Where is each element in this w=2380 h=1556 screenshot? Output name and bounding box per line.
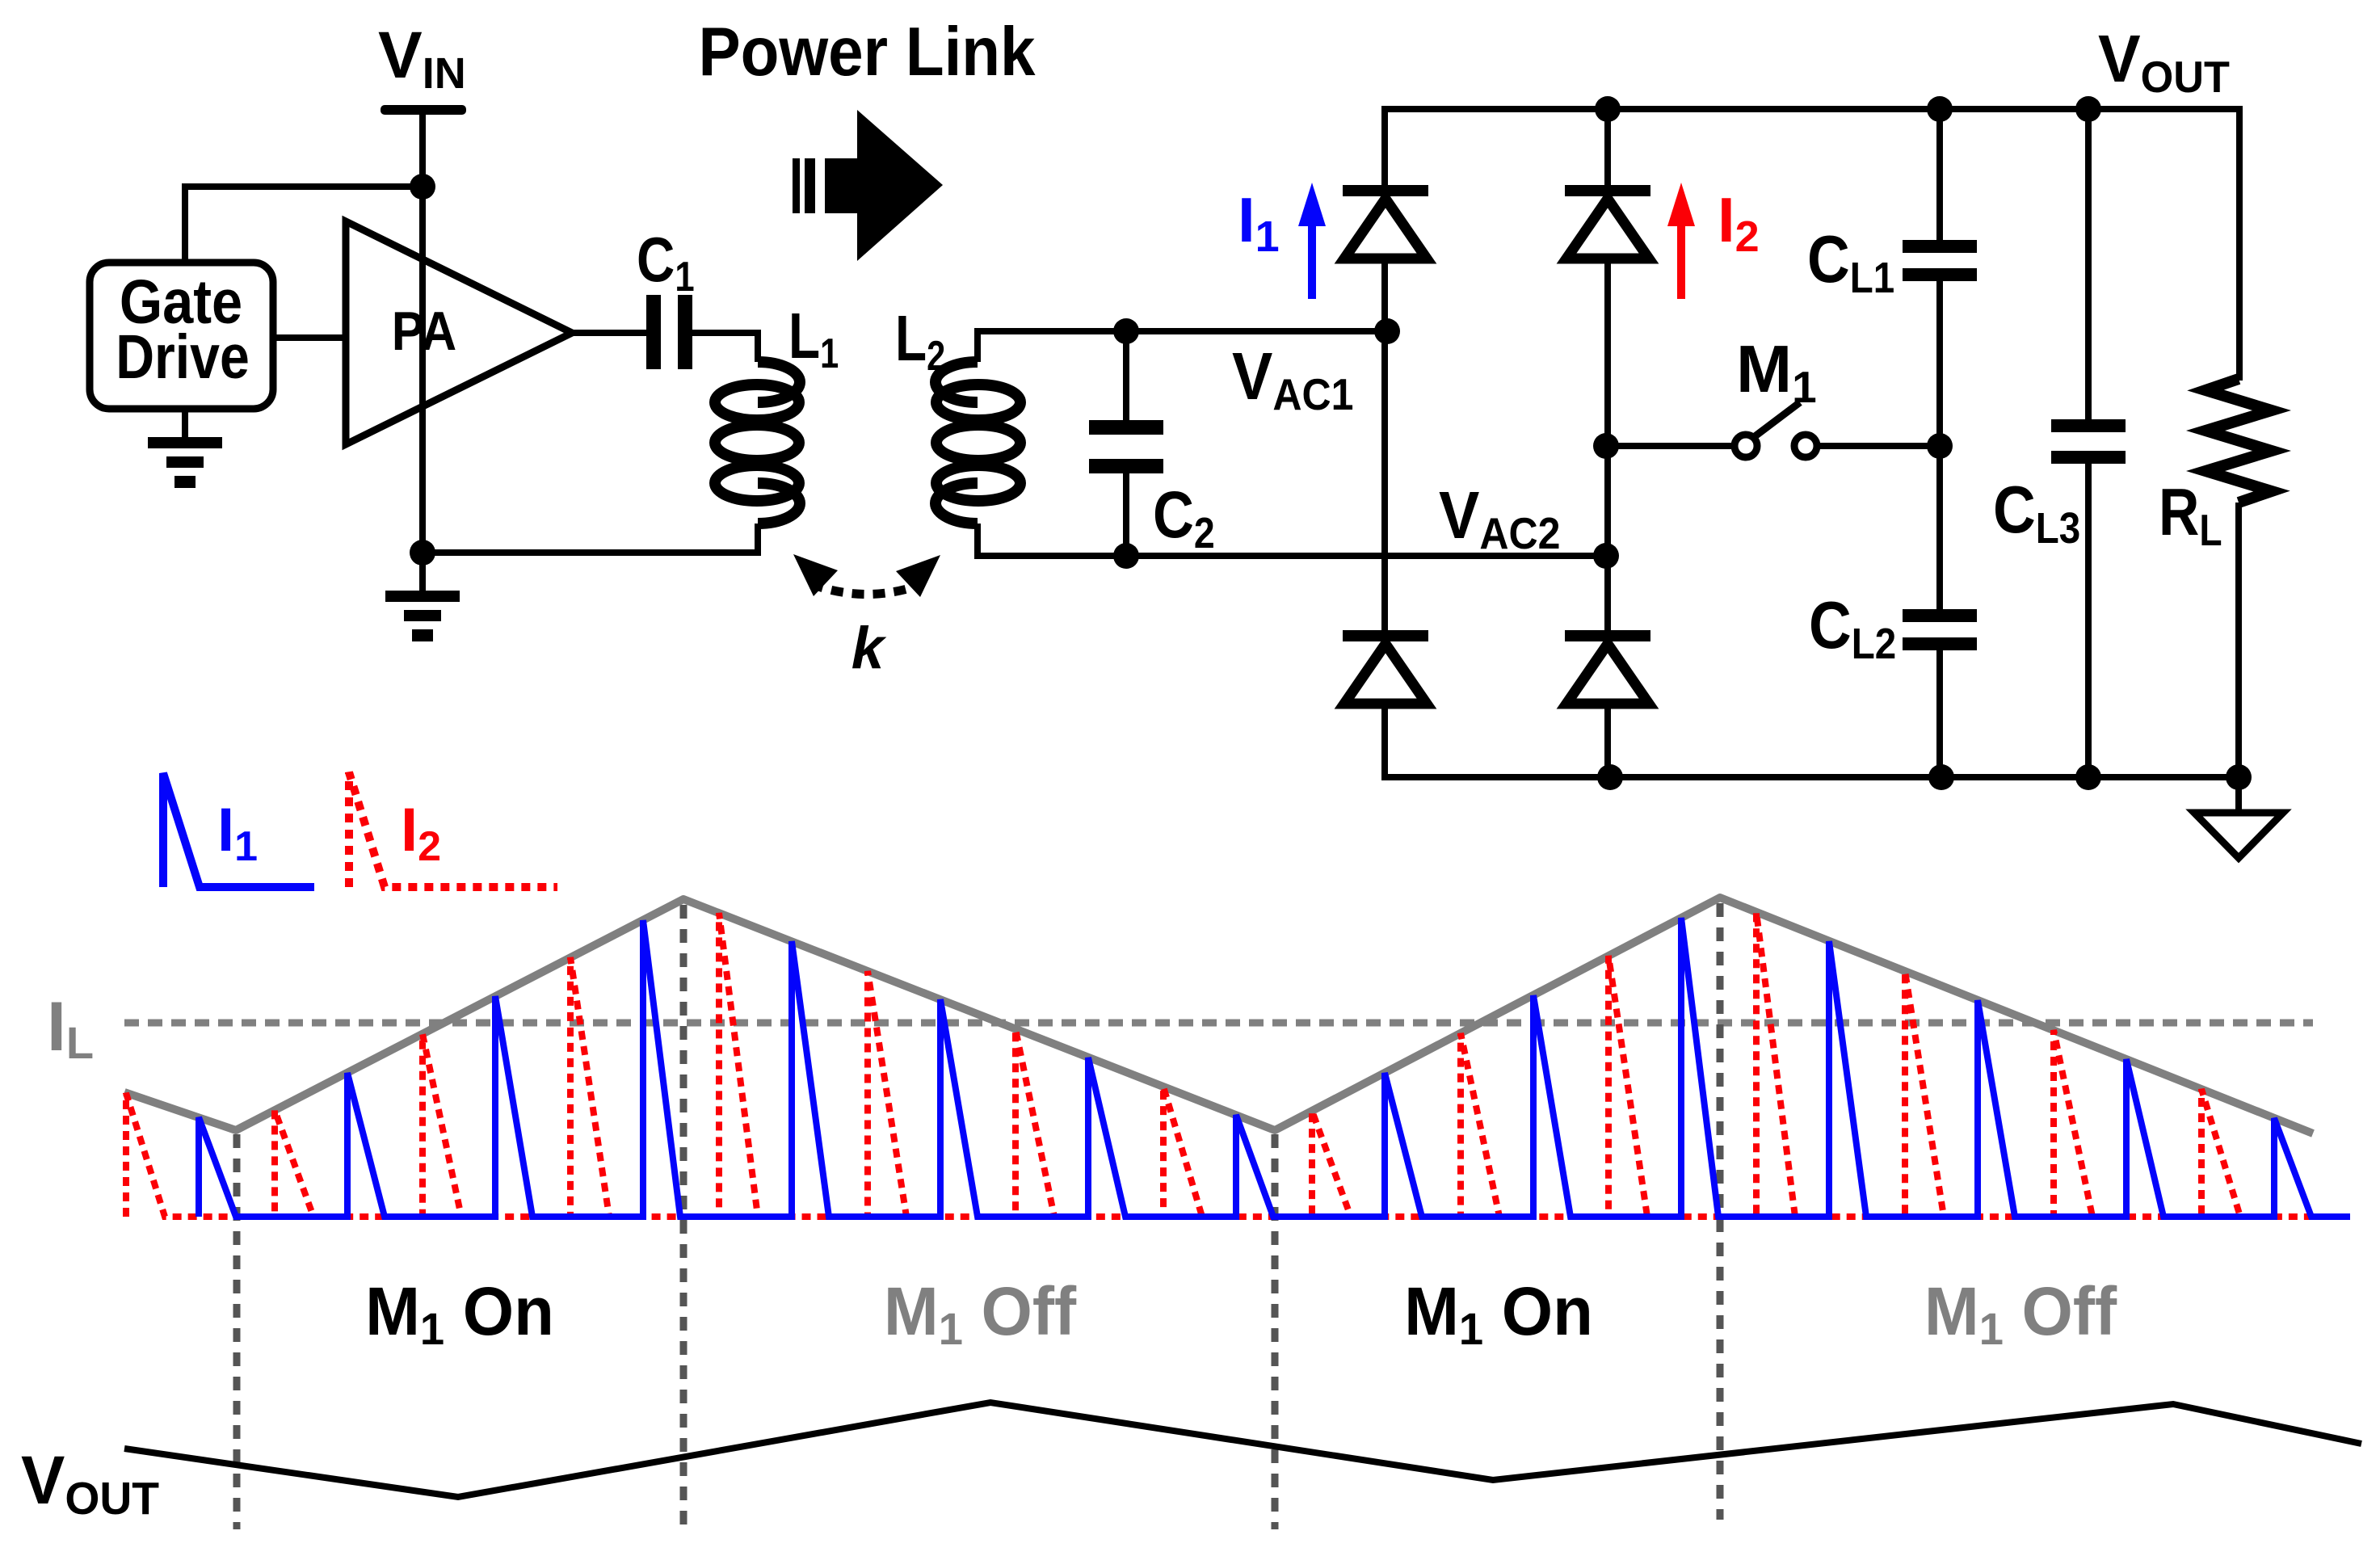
diode D3	[1343, 630, 1428, 641]
junction node	[410, 174, 435, 200]
wire L2 top to VAC1	[978, 331, 1387, 362]
current arrow I2	[1677, 220, 1685, 299]
M1 Off label 2	[1924, 1273, 2117, 1354]
capacitor C1	[646, 295, 661, 369]
Power Link label	[698, 14, 1036, 90]
bottom rail	[1385, 704, 2239, 777]
diode branch D1/D3 vertical	[1381, 259, 1388, 632]
M1 On label 2	[1404, 1273, 1593, 1354]
diode branch D2/D4 vertical	[1604, 109, 1611, 187]
dashed vertical markers	[233, 1134, 241, 1529]
svg-text:M1 Off: M1 Off	[884, 1273, 1077, 1354]
legend I1 spike	[163, 773, 314, 887]
VAC1 label	[1232, 339, 1353, 420]
junction node	[2075, 764, 2101, 790]
resistor RL	[2205, 379, 2272, 503]
wire VIN vertical	[419, 115, 426, 553]
M1 On label 1	[365, 1273, 554, 1354]
svg-text:M1 On: M1 On	[1404, 1273, 1593, 1354]
I1 blue spikes waveform	[199, 918, 2350, 1217]
junction node	[1597, 764, 1623, 790]
top rail	[1385, 109, 2239, 381]
switch M1	[1608, 443, 1735, 449]
junction node	[1595, 96, 1621, 122]
ground under gate drive	[148, 437, 222, 448]
svg-text:Power Link: Power Link	[698, 14, 1036, 90]
IL envelope triangle wave	[124, 898, 2313, 1133]
ground symbol output	[2235, 777, 2242, 813]
junction node	[1928, 764, 1954, 790]
junction node	[1593, 543, 1619, 569]
wire gate drive to PA	[273, 334, 346, 341]
M1 Off label 1	[884, 1273, 1077, 1354]
VIN supply rail symbol	[381, 105, 466, 115]
PA amplifier triangle U1	[346, 221, 572, 444]
wire L2 bottom	[978, 524, 1606, 556]
VOUT waveform	[124, 1403, 2361, 1497]
inductor L1	[715, 362, 800, 524]
current arrow I1	[1308, 220, 1316, 299]
inductor L2	[936, 362, 1020, 524]
VIN label	[378, 19, 466, 98]
capacitor CL3	[2085, 109, 2092, 419]
junction node	[2075, 96, 2101, 122]
I2 red spikes waveform	[126, 912, 2350, 1217]
wire gate drive stem	[182, 409, 188, 437]
svg-text:k: k	[852, 616, 887, 681]
wire PA output to C1	[569, 330, 646, 336]
wire PA gnd stem	[419, 553, 426, 591]
junction node	[1927, 96, 1953, 122]
Gate Drive block	[90, 263, 273, 409]
capacitor C2	[1123, 331, 1129, 421]
svg-text:Drive: Drive	[116, 322, 250, 392]
VOUT label	[2098, 22, 2230, 102]
junction node	[1113, 543, 1139, 569]
diode D2	[1565, 185, 1650, 196]
legend I2 spike	[349, 772, 557, 887]
coupling arrows k	[811, 584, 923, 595]
ground under PA	[385, 591, 460, 602]
diode D1	[1343, 185, 1428, 196]
wire VIN to gate drive	[185, 187, 423, 263]
diode D4	[1565, 630, 1650, 641]
capacitor CL1	[1936, 109, 1943, 240]
ground junction wire under PA	[423, 524, 758, 553]
junction node	[1927, 433, 1953, 459]
junction node	[2226, 764, 2252, 790]
VAC2 label	[1439, 477, 1560, 559]
junction node	[410, 540, 435, 566]
capacitor CL2	[1936, 446, 1943, 609]
IL label	[47, 988, 94, 1068]
power link arrow	[793, 158, 800, 213]
IL dashed threshold line	[124, 1020, 2313, 1027]
junction node	[1113, 318, 1139, 344]
svg-text:M1 Off: M1 Off	[1924, 1273, 2117, 1354]
wire C1 to L1	[692, 333, 758, 362]
junction node	[1374, 318, 1400, 344]
junction node	[1593, 433, 1619, 459]
VOUT waveform label	[21, 1442, 159, 1524]
svg-text:M1 On: M1 On	[365, 1273, 554, 1354]
